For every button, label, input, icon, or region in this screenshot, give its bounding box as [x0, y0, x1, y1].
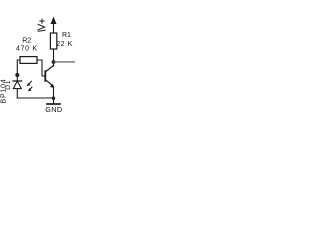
transistor Q1 — [44, 66, 54, 88]
svg-text:R1: R1 — [62, 32, 71, 39]
svg-text:D1: D1 — [5, 80, 12, 90]
wire base from R2 — [37, 60, 44, 76]
svg-text:22 K: 22 K — [56, 41, 73, 48]
node emitter junction — [52, 97, 55, 100]
R2 value label — [16, 38, 38, 53]
supply label +5 — [38, 19, 45, 31]
wire emitter down — [53, 87, 55, 104]
label D1 BP104 — [1, 78, 12, 103]
wire R1 bottom to collector node — [53, 49, 55, 66]
wire output to right edge — [54, 61, 76, 63]
resistor R2 — [20, 57, 37, 64]
node collector junction — [52, 60, 56, 64]
svg-text:GND: GND — [45, 105, 62, 114]
supply arrow +V — [51, 17, 57, 33]
ground — [45, 104, 62, 114]
wire bottom rail — [17, 97, 53, 99]
R1 value label — [56, 32, 73, 48]
resistor R1 — [50, 33, 56, 49]
node photodiode junction — [15, 73, 19, 77]
light arrows into D1 — [27, 81, 32, 91]
svg-text:470 K: 470 K — [16, 46, 38, 53]
photodiode D1 — [13, 81, 22, 98]
svg-text:R2: R2 — [22, 38, 31, 45]
wire R2 left to photodiode — [17, 60, 20, 81]
